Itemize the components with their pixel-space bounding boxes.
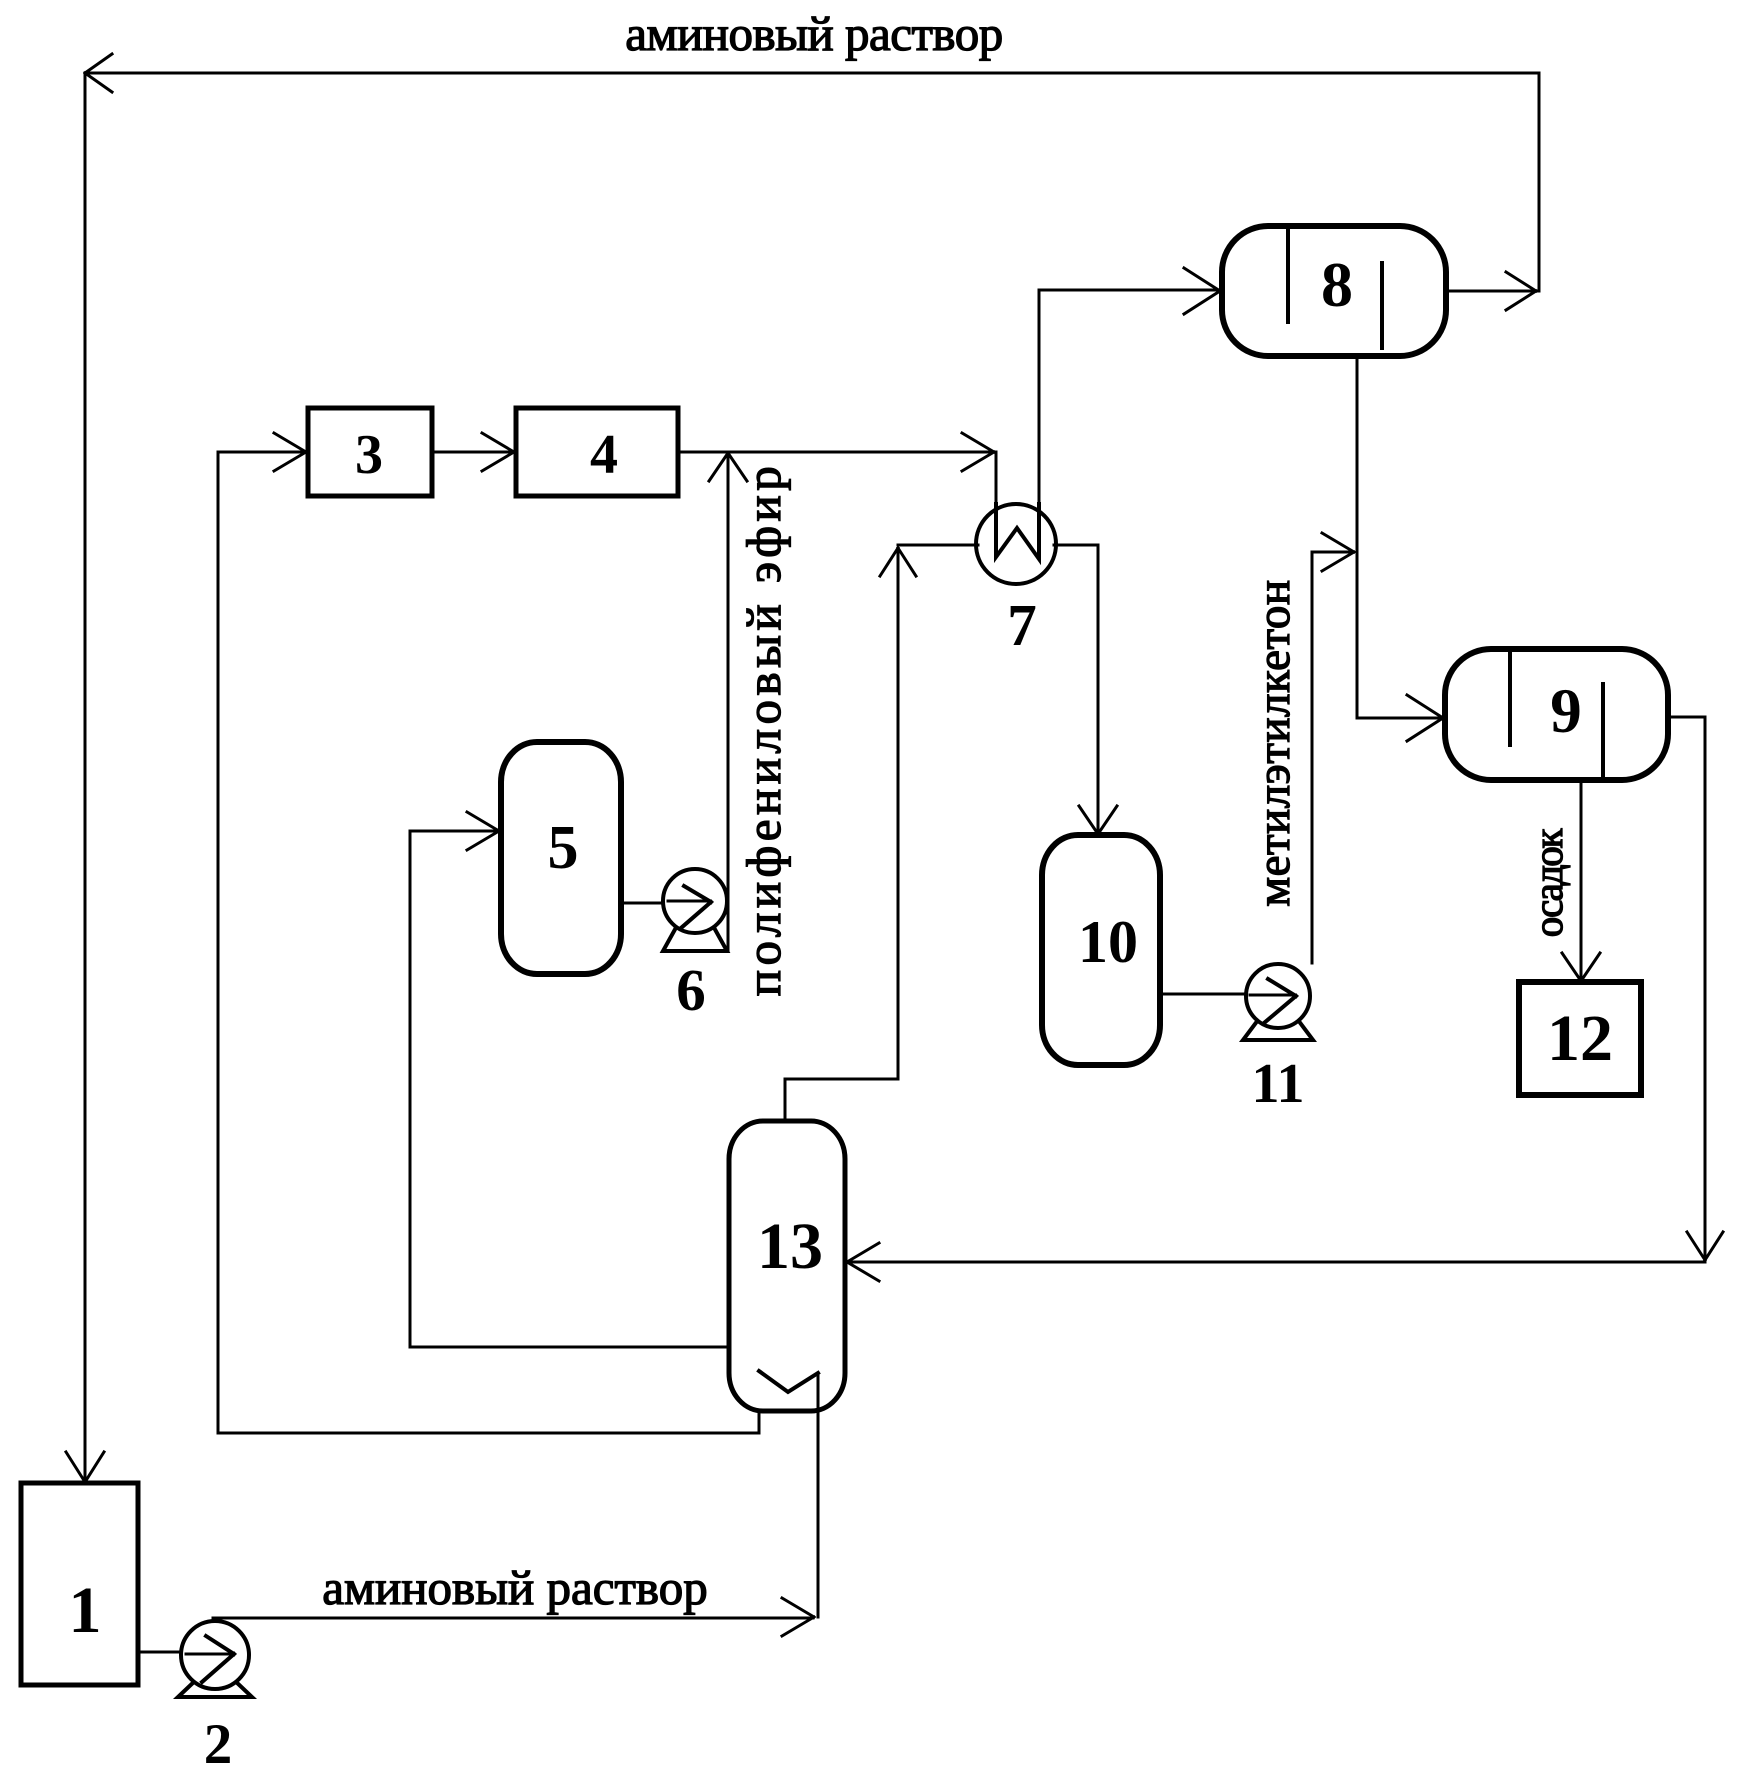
wire: top amine return line (vessel 8 to tank 1) bbox=[85, 54, 1539, 291]
wire: left vertical line down to tank 1 bbox=[66, 73, 104, 1482]
svg-text:6: 6 bbox=[676, 957, 706, 1023]
column 13 bbox=[729, 1121, 845, 1617]
wire: heat exchanger 7 to vessel 8 inlet bbox=[1039, 268, 1220, 559]
wire: line into vessel 5 bbox=[410, 812, 729, 1347]
svg-text:аминовый раствор: аминовый раствор bbox=[322, 1560, 707, 1615]
heat exchanger 7 bbox=[976, 504, 1056, 584]
svg-text:10: 10 bbox=[1078, 909, 1138, 975]
pump 2 bbox=[178, 1621, 252, 1697]
svg-text:11: 11 bbox=[1252, 1053, 1305, 1115]
svg-text:7: 7 bbox=[1007, 592, 1037, 658]
vessel 9 bbox=[1445, 649, 1668, 780]
svg-text:осадок: осадок bbox=[1525, 828, 1571, 937]
pump 11 bbox=[1243, 964, 1313, 1040]
apparatus 3 bbox=[308, 408, 432, 496]
wire: methyl ethyl ketone line from pump 11 to vessel 9 feed bbox=[1312, 533, 1354, 963]
apparatus 4 bbox=[516, 408, 678, 496]
vessel 5 bbox=[501, 742, 621, 974]
apparatus 12 bbox=[1519, 982, 1641, 1095]
vessel 8 bbox=[1222, 226, 1446, 356]
wire: vessel 8 bottoms down and into vessel 9 bbox=[1357, 356, 1443, 741]
wire: polyphenyl ether line from pump 6 up to feed junction bbox=[709, 452, 747, 950]
wire: recycle loop from column 13 bottoms to apparatus 3 bbox=[218, 433, 759, 1433]
svg-text:5: 5 bbox=[548, 814, 579, 882]
wire: feed line from apparatus 4 to heat exchanger 7 bbox=[680, 433, 996, 557]
tank 1 bbox=[21, 1483, 138, 1685]
svg-text:4: 4 bbox=[590, 424, 618, 486]
wire: vessel 5 outlet to pump 6 bbox=[621, 902, 690, 905]
pump 6 bbox=[663, 869, 727, 951]
vessel 10 bbox=[1042, 835, 1160, 1065]
svg-text:полифениловый эфир: полифениловый эфир bbox=[736, 462, 791, 996]
wire: column 13 overhead vapor to heat exchanger 7 bbox=[785, 545, 978, 1121]
wire: vessel 10 outlet to pump 11 bbox=[1160, 993, 1272, 996]
svg-text:13: 13 bbox=[757, 1210, 823, 1283]
wire: amine solution line from pump 2 to column 13 bottom bbox=[213, 1598, 814, 1636]
svg-text:2: 2 bbox=[204, 1713, 233, 1776]
svg-text:12: 12 bbox=[1547, 1002, 1613, 1075]
wire: vessel 8 outlet to riser bbox=[1446, 272, 1537, 310]
wire: vessel 9 sediment line down to box 12 bbox=[1562, 780, 1600, 981]
svg-text:аминовый раствор: аминовый раствор bbox=[625, 6, 1002, 61]
wire: tank 1 outlet to pump 2 bbox=[138, 1651, 228, 1654]
svg-text:3: 3 bbox=[355, 424, 383, 486]
svg-text:8: 8 bbox=[1321, 249, 1353, 320]
wire: heat exchanger 7 outlet down to vessel 10 bbox=[1054, 545, 1117, 834]
svg-text:метилэтилкетон: метилэтилкетон bbox=[1248, 579, 1300, 906]
wire: apparatus 3 to apparatus 4 bbox=[432, 433, 514, 471]
svg-text:9: 9 bbox=[1550, 676, 1582, 746]
wire: vessel 9 outlet down and back to column 13 bbox=[847, 717, 1723, 1281]
svg-text:1: 1 bbox=[69, 1574, 102, 1647]
